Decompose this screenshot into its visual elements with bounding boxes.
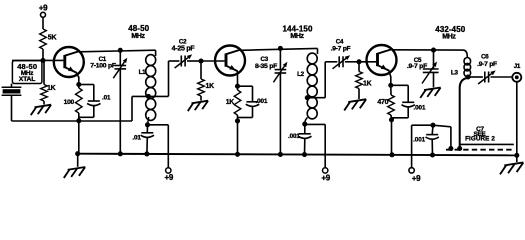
- svg-text:1K: 1K: [363, 80, 372, 87]
- svg-text:+9: +9: [321, 173, 330, 182]
- svg-text:48-50: 48-50: [128, 24, 149, 33]
- svg-text:7-100 pF: 7-100 pF: [90, 63, 116, 70]
- svg-text:+9: +9: [412, 174, 421, 183]
- svg-text:C4: C4: [336, 38, 344, 45]
- svg-text:.001: .001: [414, 105, 426, 112]
- svg-text:144-150: 144-150: [282, 24, 313, 33]
- svg-text:.001: .001: [256, 98, 268, 105]
- svg-text:8-35 pF: 8-35 pF: [255, 63, 277, 70]
- svg-text:.9-7 pF: .9-7 pF: [477, 61, 497, 68]
- svg-text:MHz: MHz: [131, 33, 145, 40]
- svg-text:.001: .001: [288, 133, 300, 140]
- svg-text:.01: .01: [102, 95, 111, 102]
- svg-text:+9: +9: [39, 4, 48, 13]
- svg-text:470: 470: [377, 99, 388, 106]
- svg-text:MHz: MHz: [290, 33, 304, 40]
- svg-text:L1: L1: [139, 69, 147, 76]
- svg-text:FIGURE 2: FIGURE 2: [465, 136, 495, 143]
- svg-text:1K: 1K: [206, 83, 215, 90]
- svg-text:1K: 1K: [47, 85, 56, 92]
- svg-text:XTAL: XTAL: [19, 76, 35, 83]
- svg-text:L3: L3: [451, 70, 459, 77]
- svg-text:5K: 5K: [48, 35, 57, 42]
- svg-text:MHz: MHz: [442, 33, 456, 40]
- svg-text:C3: C3: [260, 56, 268, 63]
- svg-text:.9-7 pF: .9-7 pF: [331, 46, 351, 53]
- svg-text:1K: 1K: [226, 99, 235, 106]
- svg-text:4-25 pF: 4-25 pF: [172, 45, 196, 52]
- svg-text:.001: .001: [413, 137, 425, 144]
- svg-text:L2: L2: [297, 71, 305, 78]
- svg-text:C6: C6: [481, 54, 489, 61]
- svg-text:J1: J1: [514, 63, 521, 70]
- svg-text:.01: .01: [132, 134, 141, 141]
- svg-text:+9: +9: [164, 173, 173, 182]
- svg-text:100: 100: [64, 99, 75, 106]
